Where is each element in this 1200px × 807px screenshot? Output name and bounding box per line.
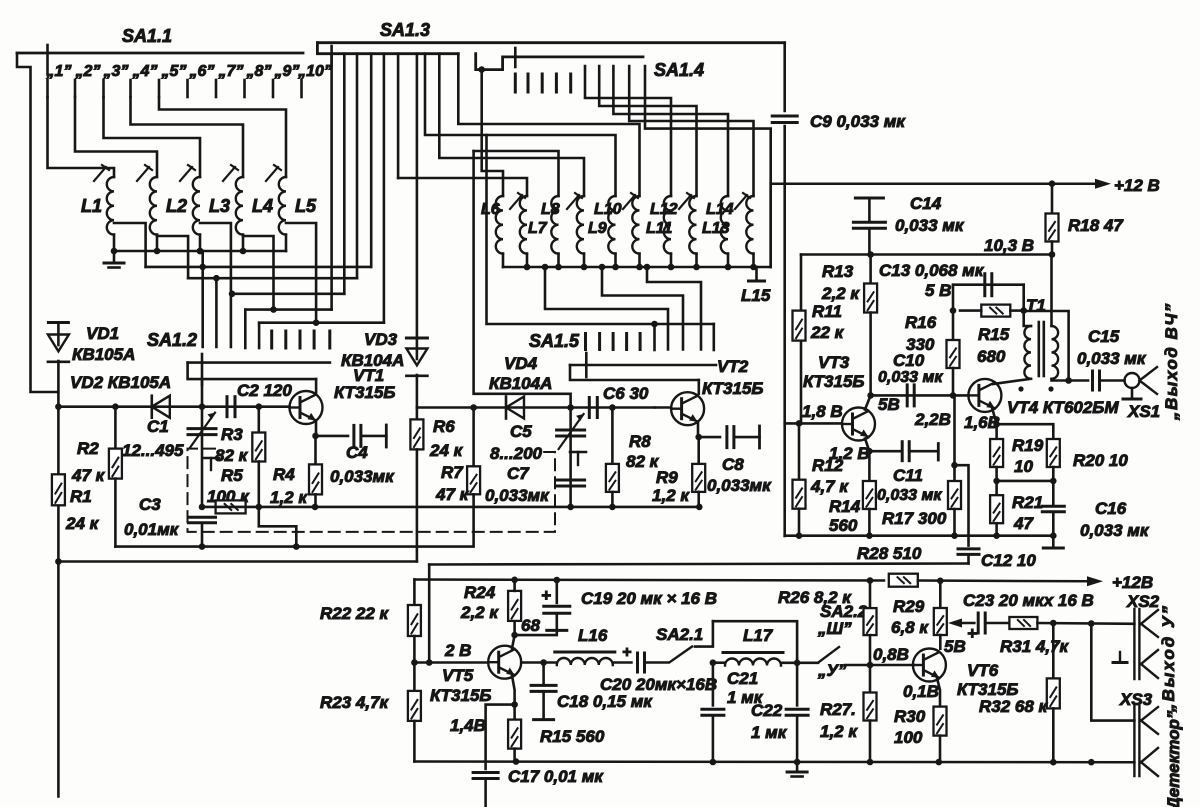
svg-text:R21: R21 (1012, 493, 1043, 512)
wire R32 string (1052, 623, 1055, 678)
junction tuner bus (725, 264, 732, 271)
wire 5V line (953, 283, 1024, 286)
junction tuner bus (612, 264, 619, 271)
inductor L12 label (650, 201, 678, 218)
node C4 terminal (385, 425, 388, 447)
svg-text:С12 10: С12 10 (981, 551, 1036, 570)
svg-text:L11: L11 (646, 220, 672, 237)
svg-text:VD2 КВ105А: VD2 КВ105А (70, 373, 171, 392)
junction tuner bus (693, 264, 700, 271)
junction (312, 504, 319, 511)
inductor L13 winding (689, 196, 696, 254)
svg-text:КТ315Б: КТ315Б (430, 686, 491, 705)
wire C14 string (868, 198, 871, 222)
junction (293, 543, 300, 550)
wire R32 bottom (1052, 708, 1055, 762)
wire VT2 collector (697, 380, 700, 394)
svg-text:R24: R24 (464, 583, 496, 602)
switch SA2.2 label (820, 602, 868, 621)
svg-text:С20 20мк×16В: С20 20мк×16В (600, 675, 717, 694)
svg-text:+12В: +12В (1112, 573, 1153, 592)
svg-text:0,033 мк: 0,033 мк (895, 216, 965, 235)
wire C23 to R31 (985, 622, 1009, 625)
diode VD4 label (504, 354, 538, 373)
capacitor C23 (978, 613, 985, 633)
wire SA1.2 feed 1 (201, 251, 204, 347)
switch SA1.1 contact pin 8 (243, 80, 246, 97)
wire left rail (57, 407, 60, 797)
svg-text:L5: L5 (295, 196, 317, 216)
wire C18 below (542, 691, 545, 719)
switch SA1.1 contact pin 10 (300, 80, 303, 97)
svg-text:VT3: VT3 (818, 353, 850, 372)
resistor R6 value (429, 441, 464, 460)
connector XS1 (1125, 373, 1140, 388)
svg-text:68: 68 (521, 616, 540, 635)
svg-text:„6”: „6” (189, 63, 215, 80)
switch SA1.1 contact pin 7 (215, 80, 218, 97)
inductor L17 label (743, 626, 774, 645)
output Vykhod VCh text (1162, 302, 1181, 421)
wire R7 bottom (472, 494, 475, 495)
resistor R16 label (905, 313, 937, 332)
wire SA1.3 column 10 (458, 54, 639, 196)
connector XS1 label (1127, 402, 1160, 421)
resistor R23 label (320, 693, 390, 712)
svg-text:С8: С8 (722, 455, 744, 474)
wire R30 bottom (939, 736, 942, 763)
transistor VT6 (913, 649, 946, 682)
resistor R24 label (464, 583, 496, 602)
wire SA1.3 right down (783, 43, 786, 111)
svg-text:1,8 В: 1,8 В (802, 402, 843, 421)
wire C19 top (555, 580, 558, 603)
wire R18 string (1051, 184, 1054, 214)
adjustable core mark of L1 (94, 165, 109, 181)
wire SA1.4 column 3 (613, 66, 728, 196)
arrow +12V top (1085, 179, 1111, 189)
resistor R1 label (70, 487, 92, 506)
junction (229, 291, 236, 298)
connector XS2 shield bar (1113, 652, 1127, 663)
resistor R17 (948, 481, 961, 509)
wire rail after R28 (918, 579, 1089, 582)
svg-text:КВ105А: КВ105А (72, 345, 135, 364)
svg-text:47: 47 (1013, 514, 1034, 533)
wire band bus a (146, 266, 372, 269)
connector XS3 label (1119, 690, 1153, 709)
wire C22 string (796, 663, 799, 706)
svg-text:С2 120: С2 120 (237, 381, 292, 400)
wire SA1.3 column 3 (356, 54, 359, 279)
capacitor C3 (189, 517, 216, 523)
adjustable core mark (567, 193, 582, 209)
wire T1 secondary bottom (1052, 379, 1089, 381)
wire SA1.2 to C1 node (201, 379, 204, 407)
junction 0.8V (867, 662, 874, 669)
svg-text:+: + (541, 586, 551, 605)
switch SA1.1 contact label „1” (46, 63, 72, 80)
wire C12 branch (955, 465, 969, 545)
node 1,8V label (802, 402, 843, 421)
capacitor C11 (902, 442, 909, 461)
switch SA1.2 contact pin 1 (270, 331, 273, 348)
wire C18 string (542, 663, 545, 686)
resistor R12 (793, 480, 806, 509)
svg-text:0,033 мк: 0,033 мк (878, 369, 943, 386)
capacitor C19 label (581, 589, 717, 608)
wire R2 (114, 407, 117, 449)
switch SA1.2 contact pin 2 (284, 331, 287, 348)
wire R14 bottom (868, 509, 871, 536)
svg-text:SA1.5: SA1.5 (529, 331, 580, 351)
svg-text:„Выход У”: „Выход У” (1159, 604, 1178, 713)
capacitor C18 label (557, 692, 653, 711)
junction coil bus (154, 248, 161, 255)
capacitor C6 label (603, 384, 649, 403)
junction tuner bus (581, 264, 588, 271)
resistor R13 label (822, 262, 854, 281)
junction cell bus (1050, 532, 1057, 539)
wire SA1.3 column 6 (397, 54, 400, 178)
capacitor C21 (702, 709, 724, 715)
resistor R18 label (1068, 216, 1124, 235)
transistor VT6 type (957, 680, 1018, 699)
resistor R30 label (894, 707, 926, 726)
switch SA1.1 contact pin 6 (186, 80, 189, 97)
capacitor C19 plus (541, 586, 551, 605)
switch SA1.3 wiper tick (330, 46, 333, 66)
diode VD2 (152, 396, 170, 418)
wire coil bottom (557, 254, 560, 267)
wire lower bus A (115, 495, 473, 546)
capacitor C20 (638, 653, 645, 672)
transistor VT1 type (334, 383, 395, 402)
wire C21 bottom (712, 715, 715, 762)
wire VT3 frame left (800, 255, 803, 424)
resistor R25 (508, 720, 521, 749)
svg-text:L3: L3 (209, 196, 230, 216)
svg-text:10,3 В: 10,3 В (984, 236, 1034, 255)
resistor R11 label (812, 302, 842, 321)
wire mesh f4b (712, 324, 715, 350)
svg-text:R30: R30 (894, 707, 926, 726)
junction (313, 319, 320, 326)
wire +12V bottom rail (414, 580, 884, 581)
junction (542, 264, 549, 271)
wire SA1.2 feed 5 (258, 323, 261, 348)
capacitor C18 (531, 685, 556, 691)
junction R15 left (950, 307, 957, 314)
wire C11 right (909, 450, 938, 453)
svg-text:47 к: 47 к (71, 466, 106, 485)
ground right (1043, 547, 1063, 550)
connector XS3 fork a (1141, 707, 1158, 734)
switch SA1.1 contact label „6” (189, 63, 215, 80)
connector XS3 (1134, 706, 1139, 776)
inductor L8 label (541, 201, 560, 218)
resistor R19 (990, 439, 1003, 467)
node C11 terminal (937, 444, 940, 461)
wire VT5 emitter (512, 676, 515, 705)
inductor L6 label (481, 201, 500, 218)
resistor R19 value (1014, 457, 1033, 476)
node C18 terminal (534, 718, 554, 721)
capacitor C6 (589, 398, 597, 418)
wire L16 to C20 (613, 661, 632, 664)
switch SA1.3 bar top (317, 41, 784, 44)
svg-text:L10: L10 (594, 201, 622, 218)
wire C15 to XS1 (1100, 379, 1125, 382)
wire L1 bottom (113, 235, 116, 251)
inductor L11 label (646, 220, 672, 237)
inductor L15 label (741, 286, 771, 305)
svg-text:С3: С3 (139, 495, 161, 514)
capacitor C19 (544, 606, 570, 613)
wire coil common bus (114, 250, 286, 253)
wire coil bottom (670, 254, 673, 267)
wire 10.3V node line (801, 253, 1052, 256)
wire tap of L1 (114, 223, 146, 267)
junction (270, 306, 277, 313)
wire L2 bottom (156, 235, 159, 251)
svg-text:С10: С10 (893, 351, 925, 370)
ground XS1 (1123, 398, 1141, 401)
junction R18 bottom (1049, 251, 1056, 258)
wire VT3 emitter (865, 439, 900, 452)
arrow +12V bottom (1087, 576, 1103, 586)
junction rail R29 (937, 578, 944, 585)
switch SA1.4 bar entry (476, 54, 643, 70)
transistor VT5 type (430, 686, 491, 705)
switch SA1.1 contact pin 4 (129, 80, 132, 97)
switch SA1.5 wiper tick (585, 353, 588, 377)
wire VT6 emitter (937, 678, 940, 707)
inductor L8 winding (551, 196, 558, 254)
switch SA1.2 contact pin 4 (313, 331, 316, 348)
resistor R22 label (320, 604, 390, 623)
wire VD3 string (416, 338, 419, 359)
resistor R5 value (207, 487, 250, 506)
svg-text:5 В: 5 В (925, 281, 951, 300)
svg-text:L9: L9 (588, 220, 607, 237)
svg-text:+12 В: +12 В (1114, 176, 1160, 195)
svg-text:6,8 к: 6,8 к (891, 618, 929, 637)
wire SA1.1 contact 1 to coil L1 (48, 97, 115, 177)
wire node line 2 (417, 406, 655, 409)
transistor VT3 type (803, 372, 864, 391)
wire R27 string (869, 665, 872, 693)
svg-text:L12: L12 (650, 201, 678, 218)
wire oscillator node line (58, 405, 289, 408)
wire C17 branch (486, 705, 515, 769)
wire XS3 branch (1091, 624, 1134, 721)
svg-text:„5”: „5” (161, 63, 187, 80)
wire lower bus B (58, 560, 417, 563)
phase dot T1 secondary (1048, 386, 1053, 391)
capacitor C15 (1093, 371, 1100, 390)
inductor L16 (555, 652, 615, 665)
svg-text:1 мк: 1 мк (751, 723, 788, 742)
node 1,6V label (964, 413, 1000, 432)
capacitor C16 value (1080, 521, 1150, 540)
inductor L11 winding (632, 196, 639, 254)
svg-text:L17: L17 (743, 626, 774, 645)
svg-text:КТ315Б: КТ315Б (803, 372, 864, 391)
wire collector to C19 (515, 632, 557, 636)
inductor L6 winding (496, 196, 503, 254)
diode VD3 label (364, 330, 398, 349)
wire VD1 top (57, 323, 60, 346)
wire cell bus ground stub (1052, 536, 1055, 547)
junction bottom bus (1088, 759, 1095, 766)
resistor R6 label (433, 417, 455, 436)
switch SA1.2 label (147, 330, 197, 350)
junction R7 top (470, 404, 477, 411)
inductor L9 winding (577, 196, 584, 254)
switch SA1.1 contact label „4” (132, 63, 158, 80)
wire R26 string (869, 581, 872, 609)
svg-text:R7: R7 (441, 463, 464, 482)
wire link down (428, 565, 431, 663)
resistor R14 label (829, 497, 861, 516)
wire mesh f2 (602, 267, 683, 350)
svg-text:SA1.4: SA1.4 (654, 60, 704, 80)
adjustable core mark (510, 193, 525, 209)
resistor R12 label (812, 456, 844, 475)
inductor L17 (723, 653, 783, 666)
resistor R16 value (906, 335, 935, 354)
svg-text:+: + (967, 624, 977, 643)
wire ground stub L1 (113, 251, 116, 262)
resistor R26 label (778, 588, 852, 607)
wire R15 wires (960, 309, 981, 312)
junction C5 top (567, 404, 574, 411)
wire R29 bottom (939, 635, 942, 649)
svg-text:SA2.1: SA2.1 (656, 625, 703, 644)
wire R14 string (868, 451, 871, 481)
junction R8 top (609, 404, 616, 411)
transistor VT3 label (818, 353, 850, 372)
wire SA1.3 column 5 (383, 54, 386, 323)
capacitor C15 label (1088, 327, 1120, 346)
adjustable core mark of L4 (223, 165, 238, 181)
svg-text:„7”: „7” (218, 63, 244, 80)
connector XS2 fork a (1141, 610, 1158, 637)
wire C12 bottom (967, 555, 970, 564)
resistor R14 (863, 481, 876, 509)
switch SA1.1 contact pin 3 (102, 80, 105, 97)
trimmer tap of C5 (570, 452, 586, 465)
junction rail R24 (511, 577, 518, 584)
junction cell bus (993, 532, 1000, 539)
resistor R27 value (820, 722, 858, 741)
wire VT5 collector (512, 621, 515, 649)
inductor L14 winding (721, 196, 728, 254)
resistor R15 (981, 305, 1010, 317)
svg-text:С18 0,15 мк: С18 0,15 мк (557, 692, 653, 711)
variable capacitor C1 (188, 413, 216, 448)
wire R12 string (798, 423, 801, 479)
junction bottom bus (867, 759, 874, 766)
wire coil bottom (614, 254, 617, 267)
capacitor C22 value (751, 723, 788, 742)
junction (478, 66, 485, 73)
wire tuner common bus (503, 266, 771, 269)
svg-text:„1”: „1” (46, 63, 72, 80)
junction tuner bus (750, 264, 757, 271)
svg-text:R3: R3 (221, 425, 243, 444)
wire R4 bottom (314, 494, 317, 507)
wire VT1 collector (315, 379, 318, 392)
svg-text:L2: L2 (166, 196, 187, 216)
output Vykhod U text (1159, 604, 1178, 713)
inductor L3 (193, 177, 200, 235)
adjustable core mark of L2 (137, 165, 152, 181)
wire R18 bottom (1051, 242, 1054, 255)
diode VD1 label (86, 324, 119, 343)
svg-text:R2: R2 (77, 439, 99, 458)
capacitor C9 (772, 116, 797, 123)
junction VT2 emitter (695, 434, 702, 441)
svg-text:XS1: XS1 (1127, 402, 1160, 421)
svg-text:4,7 к: 4,7 к (810, 477, 849, 496)
junction emitter (511, 701, 518, 708)
junction (213, 275, 220, 282)
switch SA1.5 label (529, 331, 580, 351)
diode VD4 (506, 397, 524, 419)
wire R16 column (952, 285, 955, 340)
resistor R15 label (978, 325, 1010, 344)
svg-text:0,033 мк: 0,033 мк (1080, 521, 1150, 540)
junction cell bus (866, 532, 873, 539)
resistor R24 value (460, 603, 499, 622)
wire T1 secondary top (1050, 255, 1053, 327)
svg-text:1,2 В: 1,2 В (829, 444, 870, 463)
svg-text:2,2 к: 2,2 к (821, 284, 860, 303)
connector XS2 fork b (1141, 650, 1158, 678)
junction (696, 504, 703, 511)
svg-text:+: + (622, 644, 631, 661)
arrow to R29 (948, 619, 962, 628)
switch SA1.4 contact pin 3 (541, 74, 544, 92)
svg-text:24 к: 24 к (429, 441, 464, 460)
svg-text:С23 20 мкх 16 В: С23 20 мкх 16 В (963, 591, 1094, 610)
capacitor C10 (907, 385, 914, 406)
switch SA1.4 contact pin 4 (555, 74, 558, 92)
svg-text:R11: R11 (812, 302, 842, 321)
wire feedback (1024, 311, 1069, 381)
switch SA1.2 contact pin 5 (328, 331, 331, 348)
junction coil bus (197, 248, 204, 255)
svg-text:КТ315Б: КТ315Б (334, 383, 395, 402)
transformer T1 secondary (1052, 326, 1059, 379)
switch SA1.2 bar (188, 361, 330, 364)
junction (867, 392, 874, 399)
adjustable core mark of L5 (266, 165, 281, 181)
inductor L13 label (702, 220, 730, 237)
wire SA1.1 contact 2 to coil L2 (75, 97, 157, 177)
switch SA1.5 contact pin 3 (612, 334, 615, 350)
switch SA1.1 wiper tick (46, 45, 49, 74)
resistor R1 (52, 474, 65, 505)
junction (651, 321, 658, 328)
junction R13 top (867, 251, 874, 258)
transistor VT5 label (442, 666, 474, 685)
wire R3 (257, 407, 260, 433)
diode VD4 type (489, 374, 552, 393)
wire SA1.3 column 8 (425, 54, 616, 196)
